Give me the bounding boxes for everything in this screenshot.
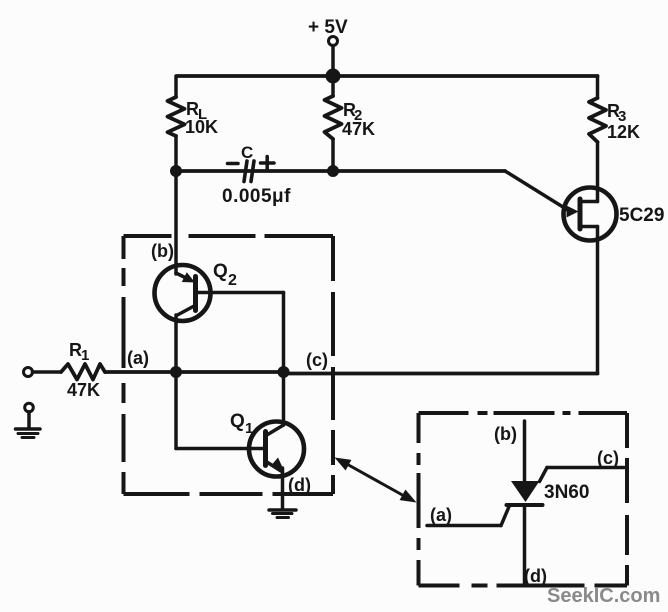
- junction dot top rail: [326, 69, 341, 84]
- transistor Q1: [249, 422, 304, 477]
- resistor RL: [168, 97, 185, 136]
- dashed box 3N60 right edge: [625, 413, 629, 586]
- dashed box left edge: [122, 236, 126, 494]
- svg-text:1: 1: [245, 420, 253, 437]
- dashed box 3N60 : top edge: [419, 411, 628, 415]
- dashed box 3N60 left edge: [417, 413, 421, 586]
- wire node a down to Q1 base: [176, 372, 266, 449]
- svg-text:12K: 12K: [607, 122, 640, 142]
- wire Q2 collector to node a: [174, 315, 178, 372]
- input terminal: [24, 368, 33, 377]
- svg-text:10K: 10K: [185, 117, 218, 137]
- dashed box bottom edge: [124, 492, 334, 496]
- wire second rail: [176, 169, 505, 173]
- resistor R1: [61, 364, 105, 380]
- junction dot R2-rail: [327, 165, 339, 177]
- node a: [170, 366, 182, 378]
- SCS 3N60 gate c lead: [540, 468, 625, 482]
- dashed box Q1/Q2 equivalent : top edge: [124, 234, 334, 238]
- SCS 3N60 triangle: [511, 481, 540, 502]
- svg-text:(d): (d): [288, 475, 311, 495]
- wire top rail: [177, 74, 598, 78]
- svg-text:0.005μf: 0.005μf: [222, 186, 291, 207]
- junction dot RL-rail: [170, 165, 182, 177]
- svg-text:47K: 47K: [67, 380, 100, 400]
- svg-text:2: 2: [228, 272, 237, 289]
- wire R2 top lead: [331, 76, 335, 96]
- dashed box right edge: [331, 236, 335, 494]
- svg-text:47K: 47K: [342, 119, 375, 139]
- resistor R3: [589, 98, 606, 142]
- svg-text:3N60: 3N60: [544, 482, 589, 503]
- annotation arrow between boxes: [335, 458, 417, 503]
- dashed box 3N60 bottom edge: [419, 584, 628, 588]
- wire Q2 base to Q1 collector: [196, 293, 284, 426]
- svg-text:(b): (b): [151, 241, 174, 261]
- ground (input): [16, 403, 41, 437]
- wire R2 bottom lead: [331, 139, 335, 171]
- wire R1 to node a: [105, 370, 176, 374]
- svg-text:+ 5V: + 5V: [308, 17, 348, 38]
- wire b vertical: [174, 171, 178, 274]
- svg-text:C: C: [241, 143, 253, 162]
- wire R3 top lead: [596, 76, 600, 98]
- svg-text:(c): (c): [306, 350, 328, 370]
- svg-text:SeekIC.com: SeekIC.com: [547, 585, 660, 607]
- svg-text:5C29: 5C29: [619, 205, 664, 226]
- svg-text:(c): (c): [597, 448, 619, 468]
- SCS 3N60 cathode lead d: [523, 505, 527, 584]
- ground (Q1 emitter): [269, 468, 296, 518]
- wire node a to node c: [176, 370, 284, 374]
- svg-text:(a): (a): [127, 348, 149, 368]
- SCS 3N60 gate a lead: [427, 506, 510, 526]
- SCS 3N60 anode lead b: [523, 421, 527, 482]
- capacitor minus sign: [228, 162, 239, 166]
- wire drain to R3: [596, 142, 600, 202]
- svg-text:(a): (a): [430, 505, 452, 525]
- SCS 3N60 cathode bar: [507, 503, 543, 507]
- resistor R2: [325, 96, 342, 139]
- svg-text:1: 1: [81, 347, 89, 364]
- wire c row right: [284, 372, 598, 376]
- svg-text:(b): (b): [494, 424, 517, 444]
- transistor 5C29: [564, 188, 617, 241]
- capacitor plus sign: [261, 157, 275, 170]
- wire RL top lead: [174, 76, 178, 97]
- wire RL bottom lead: [174, 136, 178, 171]
- svg-text:Q: Q: [213, 261, 228, 282]
- +5V supply terminal: [329, 37, 338, 77]
- node c: [278, 366, 290, 378]
- svg-text:(d): (d): [524, 566, 547, 586]
- transistor Q2: [155, 265, 211, 321]
- wire gate diagonal: [505, 171, 567, 210]
- wire input to R1: [33, 370, 62, 374]
- capacitor C plates: [244, 161, 254, 182]
- svg-text:Q: Q: [230, 411, 245, 432]
- wire source down: [596, 227, 600, 374]
